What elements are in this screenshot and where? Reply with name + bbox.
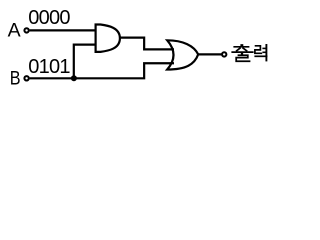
svg-text:0000: 0000 — [28, 7, 70, 29]
svg-text:B: B — [10, 68, 21, 90]
svg-text:A: A — [8, 20, 21, 42]
svg-text:0101: 0101 — [28, 56, 70, 78]
